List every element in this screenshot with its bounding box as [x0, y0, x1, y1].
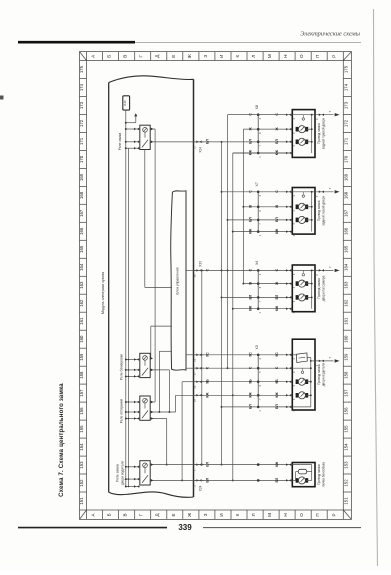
control unit wires to module pins 25 27 [186, 354, 194, 356]
svg-text:162: 162 [343, 299, 348, 307]
svg-text:165: 165 [343, 245, 348, 253]
svg-text:152: 152 [79, 479, 84, 487]
driver switch loop wiring [292, 354, 296, 356]
svg-text:163: 163 [343, 281, 348, 289]
svg-text:БЛ: БЛ [248, 217, 252, 222]
ground arrow for rear left door lock [315, 191, 334, 193]
lock relay pin wires left [126, 128, 140, 130]
svg-text:Л: Л [251, 513, 256, 516]
svg-text:Н: Н [283, 55, 288, 58]
svg-text:Р: Р [331, 513, 336, 516]
bus V2 [227, 115, 229, 369]
svg-text:167: 167 [343, 209, 348, 217]
svg-text:О: О [299, 54, 304, 58]
svg-text:Привод замка: Привод замка [317, 364, 321, 385]
module exit X24 pin 17 [194, 141, 205, 143]
passenger door lock motor lower [296, 295, 299, 300]
svg-text:В: В [123, 513, 128, 516]
wires into X3 [194, 354, 293, 356]
svg-text:Реле замка: Реле замка [116, 464, 120, 482]
power feed arrow [126, 122, 136, 124]
svg-text:Б49: Б49 [123, 100, 127, 106]
driver door lock relay [140, 461, 150, 485]
wire lock relay to X24 pin17 (BL) [150, 141, 292, 143]
svg-text:П: П [315, 513, 320, 516]
svg-text:160: 160 [343, 335, 348, 343]
svg-text:Привод замка: Привод замка [317, 278, 321, 299]
module outline right edge [193, 79, 195, 497]
actuator box rear right door lock [292, 110, 315, 158]
rear right door lock motor lower [296, 140, 299, 145]
module exit pin 27 [194, 367, 205, 369]
svg-text:Х33: Х33 [199, 261, 203, 267]
svg-text:163: 163 [79, 281, 84, 289]
rear left door lock motor upper [296, 205, 299, 210]
svg-text:Х24: Х24 [199, 485, 203, 491]
corner X8 Zh wire [243, 128, 292, 130]
svg-text:154: 154 [79, 443, 84, 451]
svg-text:27: 27 [193, 372, 197, 375]
module exit X33 pin 36 [194, 269, 205, 271]
svg-text:151: 151 [343, 497, 348, 505]
svg-text:9Б: 9Б [275, 379, 279, 384]
drop wire from X33 node to fuel wire [201, 270, 203, 464]
svg-text:БЛ: БЛ [205, 461, 209, 466]
svg-text:155: 155 [79, 425, 84, 433]
corner X8 KZh wire [233, 152, 292, 154]
driver inner circle terminal [301, 371, 303, 373]
svg-text:БЛ: БЛ [248, 294, 252, 299]
second supply bus [127, 148, 129, 486]
footer rule right [203, 527, 361, 529]
svg-text:36: 36 [193, 274, 197, 277]
frame row numbers left column [79, 65, 87, 504]
svg-text:БЛ: БЛ [205, 477, 209, 482]
actuator box fuel filler flap lock [292, 463, 315, 487]
driver motor lower [296, 393, 299, 398]
svg-text:175: 175 [79, 65, 84, 73]
svg-text:М: М [267, 513, 272, 517]
passenger door lock internal wiring [292, 269, 315, 271]
fuel flap internal resistor [298, 469, 306, 474]
svg-text:Ж: Ж [187, 512, 192, 517]
svg-text:Схема 7. Схема центрального за: Схема 7. Схема центрального замка [59, 383, 65, 497]
svg-text:172: 172 [343, 119, 348, 127]
svg-text:152: 152 [343, 479, 348, 487]
svg-text:19: 19 [193, 399, 197, 402]
bus V4 [242, 129, 244, 283]
svg-text:9Б: 9Б [205, 379, 209, 384]
svg-text:лючка бензобака: лючка бензобака [322, 462, 326, 487]
svg-text:БЛ: БЛ [275, 404, 279, 409]
ground arrow for passenger door lock [315, 269, 334, 271]
svg-text:БЛ: БЛ [248, 139, 252, 144]
actuator box passenger door lock [292, 265, 315, 312]
svg-text:Реле замка: Реле замка [118, 133, 122, 151]
svg-text:153: 153 [343, 461, 348, 469]
driver ground exit [311, 360, 315, 362]
svg-text:З: З [203, 55, 208, 58]
svg-text:171: 171 [343, 137, 348, 145]
svg-text:Б: Б [107, 55, 112, 58]
svg-text:168: 168 [343, 191, 348, 199]
svg-text:Е: Е [171, 55, 176, 58]
svg-text:БЛ: БЛ [248, 404, 252, 409]
svg-text:БЛ: БЛ [275, 477, 279, 482]
svg-text:БЛ: БЛ [275, 139, 279, 144]
driver lock position switch [296, 353, 307, 363]
svg-text:Привод замка: Привод замка [317, 200, 321, 221]
svg-text:157: 157 [343, 389, 348, 397]
bus V3 [232, 153, 234, 480]
svg-text:двери водителя: двери водителя [322, 363, 326, 387]
svg-text:Н: Н [283, 513, 288, 516]
svg-text:161: 161 [79, 317, 84, 325]
blocking relay (Rele blokirovki) [140, 353, 150, 377]
svg-text:157: 157 [79, 389, 84, 397]
frame column letters bottom row [91, 510, 337, 519]
svg-text:задней правой двери: задней правой двери [322, 118, 326, 150]
footer rule left [18, 527, 167, 529]
control unit wire to unlock relay riser [159, 350, 172, 352]
svg-text:174: 174 [79, 83, 84, 91]
svg-text:169: 169 [79, 173, 84, 181]
svg-text:9С: 9С [248, 352, 252, 357]
frame column letters top row [91, 52, 337, 61]
svg-text:Модуль электрики кузова: Модуль электрики кузова [101, 272, 105, 314]
module exit X24 fuel bottom [194, 479, 205, 481]
svg-text:Привод замка: Привод замка [317, 464, 321, 485]
svg-text:173: 173 [79, 101, 84, 109]
svg-text:И: И [219, 513, 224, 516]
svg-text:БЛ: БЛ [205, 139, 209, 144]
svg-text:166: 166 [343, 227, 348, 235]
svg-text:З: З [203, 513, 208, 516]
svg-text:17: 17 [193, 145, 197, 148]
module exit pin 25 [194, 354, 205, 356]
svg-text:9С: 9С [205, 352, 209, 357]
header rule thin segment [135, 42, 361, 44]
rear right door lock motor upper [296, 127, 299, 132]
svg-text:162: 162 [79, 299, 84, 307]
wires into Х8 [228, 114, 293, 116]
body electrics module outline left edge [108, 83, 110, 493]
unlock relay lower contact riser [150, 418, 167, 420]
module outline wavy top edge [109, 76, 194, 83]
svg-text:167: 167 [79, 209, 84, 217]
svg-text:Привод замка: Привод замка [317, 123, 321, 144]
lock relay output wire to riser [150, 128, 155, 130]
actuator box driver door lock [292, 339, 315, 410]
svg-text:170: 170 [79, 155, 84, 163]
module exit pin 18 [194, 381, 205, 383]
svg-text:Х7: Х7 [255, 182, 259, 186]
svg-text:БЛ: БЛ [275, 294, 279, 299]
unlock relay contact wire [150, 411, 175, 413]
driver bottom pin wire [292, 406, 311, 408]
svg-text:П: П [315, 55, 320, 58]
svg-text:Р: Р [331, 55, 336, 58]
fuel flap internal wiring [292, 464, 311, 466]
svg-text:164: 164 [343, 263, 348, 271]
wires into Х7 [222, 191, 293, 193]
svg-text:151: 151 [79, 497, 84, 505]
power bus from fuse B49 [125, 110, 127, 486]
svg-text:Х24: Х24 [199, 147, 203, 153]
passenger door lock motor upper [296, 281, 299, 286]
left margin scan mark [0, 96, 4, 100]
svg-text:Ж: Ж [187, 53, 192, 58]
module exit pin 19 [194, 394, 205, 396]
svg-text:Блок управления: Блок управления [176, 267, 180, 294]
svg-text:156: 156 [343, 407, 348, 415]
svg-text:153: 153 [79, 461, 84, 469]
wire drop to control unit [145, 286, 172, 288]
connector Х7 column [257, 192, 259, 232]
fuel flap motor [296, 478, 299, 483]
module exit fuel top [194, 464, 205, 466]
wires into Х4 [194, 269, 293, 271]
frame corner diagonals [80, 52, 87, 61]
rear left door lock internal wiring [292, 191, 315, 193]
svg-text:171: 171 [79, 137, 84, 145]
blocking relay contact riser [150, 369, 169, 371]
relay bottom pin drop wire [144, 150, 146, 288]
svg-text:9Б: 9Б [248, 379, 252, 384]
header rule thick segment [18, 41, 135, 44]
riser module pin 18 to driver relay [181, 382, 183, 481]
svg-text:154: 154 [343, 443, 348, 451]
actuator box rear left door lock [292, 188, 315, 235]
svg-text:Электрические схемы: Электрические схемы [300, 31, 360, 38]
lock relay (Rele zamka) [140, 125, 150, 149]
svg-text:165: 165 [79, 245, 84, 253]
svg-text:Х4: Х4 [255, 261, 259, 265]
corner X8 C wire [228, 114, 293, 116]
rear right door lock internal wiring [292, 114, 315, 116]
svg-text:164: 164 [79, 263, 84, 271]
svg-text:двери пассажира: двери пассажира [322, 275, 326, 301]
frame inner boundary lines [86, 52, 88, 520]
svg-text:9С: 9С [275, 352, 279, 357]
svg-text:155: 155 [343, 425, 348, 433]
svg-text:Х3: Х3 [255, 345, 259, 349]
unlocking relay (Rele otpiraniya) [140, 396, 150, 420]
svg-text:И: И [219, 55, 224, 58]
svg-text:М: М [267, 54, 272, 58]
module outline wavy bottom edge [109, 492, 194, 497]
svg-text:Реле отпирания: Реле отпирания [119, 399, 123, 424]
control unit (Blok upravleniya) strip [171, 191, 186, 370]
svg-text:Реле блокировки: Реле блокировки [119, 354, 123, 380]
svg-text:175: 175 [343, 65, 348, 73]
connector Х4 column [257, 270, 259, 308]
svg-text:Е: Е [171, 513, 176, 516]
fuse B49 [123, 96, 130, 110]
svg-text:169: 169 [343, 173, 348, 181]
svg-text:В: В [123, 55, 128, 58]
driver relay output wires [150, 464, 193, 466]
wires into fuel flap box [194, 464, 293, 466]
svg-text:173: 173 [343, 101, 348, 109]
bus V1 [221, 142, 223, 465]
svg-text:Б: Б [107, 513, 112, 516]
svg-text:К: К [235, 513, 240, 516]
svg-text:160: 160 [79, 335, 84, 343]
svg-text:25: 25 [193, 358, 197, 361]
svg-text:159: 159 [79, 353, 84, 361]
riser unlock relay to module pin 19 [175, 395, 177, 412]
svg-text:172: 172 [79, 119, 84, 127]
rear left door lock motor lower [296, 218, 299, 223]
svg-text:Х8: Х8 [255, 105, 259, 109]
svg-text:168: 168 [79, 191, 84, 199]
svg-text:К: К [235, 55, 240, 58]
svg-text:174: 174 [343, 83, 348, 91]
riser from lock relay to unlock relay [154, 129, 156, 402]
svg-text:О: О [299, 513, 304, 517]
connector X3 column [257, 355, 259, 407]
ground arrow for rear right door lock [315, 114, 334, 116]
svg-text:158: 158 [79, 371, 84, 379]
right page-edge scan line [374, 9, 378, 566]
connector Х8 column [257, 115, 259, 153]
svg-text:339: 339 [178, 523, 192, 532]
svg-text:БЛ: БЛ [275, 217, 279, 222]
svg-text:18: 18 [193, 385, 197, 388]
svg-text:170: 170 [343, 155, 348, 163]
control unit wire to X33 [186, 269, 194, 271]
frame row numbers right column [343, 65, 351, 504]
svg-text:156: 156 [79, 407, 84, 415]
svg-text:161: 161 [343, 317, 348, 325]
svg-text:166: 166 [79, 227, 84, 235]
driver motor upper [296, 379, 299, 384]
svg-text:задней левой двери: задней левой двери [322, 196, 326, 226]
control unit wire to blocking relay [151, 325, 172, 327]
svg-text:158: 158 [343, 371, 348, 379]
schematic border frame outer rect [80, 52, 352, 520]
svg-text:159: 159 [343, 353, 348, 361]
svg-text:двери водителя: двери водителя [120, 461, 124, 485]
svg-text:Л: Л [251, 55, 256, 58]
